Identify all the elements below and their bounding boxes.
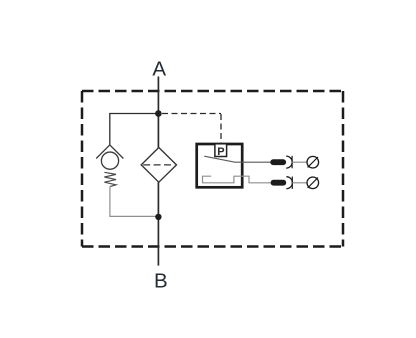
svg-text:P: P <box>217 146 224 158</box>
pressure switch: P window <box>215 144 227 157</box>
pressure switch: contact arm + wire to pin 1 <box>204 156 270 162</box>
plug-socket symbol 2: arc <box>286 177 292 189</box>
plug-socket symbol 1: arc <box>286 156 292 168</box>
check valve: spring <box>104 172 116 186</box>
screw terminal 2: slash <box>308 178 318 188</box>
node: top junction <box>155 110 162 117</box>
screw terminal 1: circle <box>307 156 319 168</box>
check valve: ball <box>101 152 118 169</box>
node: bottom junction <box>155 214 161 220</box>
svg-text:B: B <box>154 270 168 293</box>
wire: socket 1 to terminal 1 <box>292 161 307 163</box>
dashed enclosure border <box>82 91 343 247</box>
wire: branch to check valve (top) <box>110 114 159 146</box>
filter element: diamond <box>141 148 176 183</box>
wire: main line A to filter top <box>157 77 159 148</box>
screw terminal 1: slash <box>308 157 318 167</box>
plug-socket symbol 1: line <box>291 156 293 168</box>
wire: check valve bottom return <box>110 187 158 217</box>
wire: filter bottom to B <box>157 182 159 265</box>
connector pin 1 (capsule) <box>270 159 286 165</box>
pressure switch: stepped contact + wire to pin 2 <box>203 176 271 183</box>
check valve: seat <box>96 145 123 159</box>
plug-socket symbol 2: line <box>291 177 293 189</box>
connector pin 2 (capsule) <box>271 180 287 186</box>
filter element: mesh dashed line <box>143 164 174 166</box>
pressure switch: body box <box>197 144 243 187</box>
pilot line (dashed) to pressure switch <box>162 114 221 144</box>
wire: socket 2 to terminal 2 <box>292 182 307 184</box>
svg-text:A: A <box>152 57 166 80</box>
screw terminal 2: circle <box>307 177 319 189</box>
